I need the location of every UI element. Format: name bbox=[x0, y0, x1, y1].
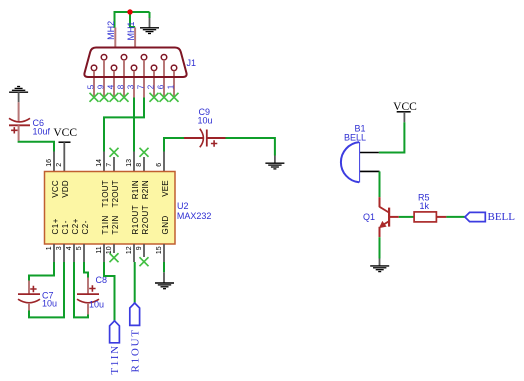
svg-text:3: 3 bbox=[127, 84, 136, 89]
svg-text:C2+: C2+ bbox=[71, 218, 80, 234]
svg-text:9: 9 bbox=[136, 246, 143, 250]
svg-text:1: 1 bbox=[167, 84, 176, 89]
ground (below Q1) bbox=[370, 259, 389, 272]
label C9 bbox=[199, 107, 211, 117]
svg-text:10uf: 10uf bbox=[33, 127, 51, 137]
svg-text:1k: 1k bbox=[420, 201, 430, 211]
svg-text:VEE: VEE bbox=[161, 180, 170, 197]
svg-text:4: 4 bbox=[107, 84, 116, 89]
svg-text:J1: J1 bbox=[187, 58, 197, 68]
power VCC (right) bbox=[393, 101, 417, 122]
svg-text:16: 16 bbox=[46, 159, 53, 167]
svg-text:R1IN: R1IN bbox=[131, 180, 140, 199]
ground (right of C9) bbox=[265, 156, 284, 169]
svg-text:5: 5 bbox=[87, 84, 96, 89]
svg-text:U2: U2 bbox=[177, 201, 189, 211]
ground (inverted, above C6) bbox=[9, 87, 28, 103]
wire C7 to U2 pin3 bbox=[29, 262, 64, 317]
svg-text:R2IN: R2IN bbox=[141, 180, 150, 199]
U2 bottom pin leads bbox=[54, 244, 164, 262]
power VCC (left) bbox=[53, 127, 77, 172]
label MH1 bbox=[126, 21, 136, 40]
svg-text:12: 12 bbox=[126, 246, 133, 254]
no-connect X at U2 pin7 T2OUT bbox=[110, 148, 119, 157]
label C7 value bbox=[42, 299, 57, 309]
label U2 bbox=[177, 201, 189, 211]
no-connect X at U2 pin8 R2IN bbox=[140, 148, 149, 157]
svg-text:4: 4 bbox=[66, 246, 73, 250]
MH1 pin bbox=[134, 28, 136, 48]
label R1OUT bbox=[129, 328, 141, 372]
svg-text:6: 6 bbox=[157, 84, 166, 89]
svg-text:6: 6 bbox=[156, 163, 163, 167]
port BELL bbox=[465, 212, 485, 221]
no-connect X at U2 pin9 R2OUT bbox=[140, 257, 149, 266]
svg-text:T2IN: T2IN bbox=[111, 215, 120, 234]
svg-text:10u: 10u bbox=[89, 300, 104, 310]
label Q1 bbox=[363, 212, 375, 222]
no-connect X at U2 pin10 T2IN bbox=[110, 253, 119, 262]
svg-text:11: 11 bbox=[96, 246, 103, 253]
svg-text:T2OUT: T2OUT bbox=[111, 180, 120, 207]
no-connect X marks under J1 pins 5 9 4 8 2 6 1 bbox=[90, 93, 179, 102]
wire J1 pin3 to U2 R1IN bbox=[133, 98, 135, 152]
resistor R5 bbox=[414, 212, 446, 222]
ground (top right of J1) bbox=[140, 18, 159, 34]
label C6 bbox=[33, 118, 45, 128]
capacitor C7 bbox=[18, 281, 40, 311]
wire B1 to Q1 collector bbox=[379, 171, 381, 197]
MH2 pin bbox=[114, 28, 116, 48]
svg-text:T1OUT: T1OUT bbox=[101, 180, 110, 207]
svg-text:T1IN: T1IN bbox=[109, 344, 121, 374]
junction dot bbox=[127, 9, 132, 14]
capacitor C9 bbox=[184, 129, 226, 148]
label T1IN bbox=[109, 344, 121, 374]
label C9 value bbox=[198, 116, 213, 126]
svg-text:R2OUT: R2OUT bbox=[141, 205, 150, 235]
ground (below U2 GND pin) bbox=[155, 272, 174, 288]
svg-text:BELL: BELL bbox=[344, 133, 366, 143]
svg-text:10u: 10u bbox=[198, 116, 213, 126]
wire Q1 emitter to ground bbox=[379, 237, 381, 258]
svg-text:BELL: BELL bbox=[488, 211, 516, 223]
wire U2 pin1 to C7 bbox=[29, 262, 54, 281]
svg-text:MH2: MH2 bbox=[106, 21, 116, 40]
svg-text:7: 7 bbox=[106, 163, 113, 167]
transistor Q1 bbox=[379, 197, 399, 237]
IC U2 MAX232 body bbox=[45, 172, 176, 245]
wire U2 pin15 GND to ground bbox=[163, 262, 165, 272]
U2 pin names bottom row bbox=[51, 205, 170, 235]
label C8 value bbox=[89, 300, 104, 310]
svg-text:GND: GND bbox=[161, 215, 170, 234]
svg-text:3: 3 bbox=[56, 246, 63, 250]
label C8 bbox=[96, 275, 108, 285]
wire C9 to ground bbox=[226, 138, 275, 156]
label BELL bbox=[488, 211, 516, 223]
wire to top ground bbox=[149, 12, 151, 18]
capacitor C6 bbox=[9, 102, 30, 141]
capacitor C8 bbox=[77, 278, 99, 315]
svg-text:VCC: VCC bbox=[51, 180, 60, 198]
svg-text:Q1: Q1 bbox=[363, 212, 375, 222]
U2 pin numbers top: 16 2 14 7 13 8 6 bbox=[46, 159, 163, 167]
svg-text:C1-: C1- bbox=[61, 220, 70, 234]
svg-text:C1+: C1+ bbox=[51, 218, 60, 234]
svg-text:VCC: VCC bbox=[53, 127, 77, 139]
svg-text:5: 5 bbox=[76, 246, 83, 250]
J1 pin leads bbox=[94, 60, 174, 98]
svg-text:C2-: C2- bbox=[81, 220, 90, 234]
J1 pin circles bbox=[91, 54, 177, 70]
svg-text:1: 1 bbox=[46, 246, 53, 250]
wire J1 pin7 to U2 T1OUT bbox=[104, 98, 144, 152]
label C6 value bbox=[33, 127, 51, 137]
wire Q1 base to R5 bbox=[399, 216, 414, 218]
wire U2 VEE to C9 bbox=[164, 138, 184, 152]
wire VCC to buzzer B1 bbox=[379, 122, 405, 152]
svg-text:7: 7 bbox=[137, 84, 146, 89]
label C7 bbox=[42, 291, 54, 301]
buzzer B1 BELL bbox=[341, 142, 380, 183]
svg-text:2: 2 bbox=[147, 84, 156, 89]
label R5 value 1k bbox=[420, 201, 430, 211]
svg-text:8: 8 bbox=[117, 84, 126, 89]
svg-text:14: 14 bbox=[96, 159, 103, 167]
svg-text:9: 9 bbox=[97, 84, 106, 89]
svg-text:MAX232: MAX232 bbox=[177, 211, 212, 221]
wire U2 pin11 to port T1IN bbox=[104, 262, 115, 321]
svg-text:15: 15 bbox=[156, 246, 163, 254]
svg-text:2: 2 bbox=[56, 163, 63, 167]
label J1 bbox=[187, 58, 197, 68]
label U2 value MAX232 bbox=[177, 211, 212, 221]
port T1IN bbox=[110, 321, 120, 343]
wire U2 pin5 to C8 top bbox=[84, 262, 88, 278]
U2 pin names top row bbox=[51, 180, 170, 207]
label B1 bbox=[355, 124, 366, 134]
svg-text:MH1: MH1 bbox=[126, 21, 136, 40]
label R5 bbox=[418, 193, 430, 203]
J1 pin numbers 5 9 4 8 3 7 2 6 1 bbox=[87, 84, 176, 89]
svg-text:10u: 10u bbox=[42, 299, 57, 309]
U2 top pin leads bbox=[54, 152, 164, 172]
svg-text:VDD: VDD bbox=[61, 180, 70, 198]
label B1 value BELL bbox=[344, 133, 366, 143]
wire C6 to U2 pin16 bbox=[19, 141, 54, 152]
svg-text:13: 13 bbox=[126, 159, 133, 167]
wire MH bus top bbox=[115, 12, 150, 28]
port R1OUT bbox=[130, 303, 140, 325]
connector J1 body bbox=[84, 48, 186, 78]
wire R5 to port BELL bbox=[446, 216, 465, 218]
svg-text:8: 8 bbox=[136, 163, 143, 167]
svg-text:R1OUT: R1OUT bbox=[129, 328, 141, 372]
wire U2 pin4 to C8 bottom bbox=[74, 262, 88, 317]
U2 pin numbers bottom: 1 3 4 5 11 10 12 9 15 bbox=[46, 246, 163, 254]
wire U2 pin12 to port R1OUT bbox=[134, 262, 136, 303]
svg-text:R1OUT: R1OUT bbox=[131, 205, 140, 235]
svg-text:T1IN: T1IN bbox=[101, 215, 110, 234]
label MH2 bbox=[106, 21, 116, 40]
svg-text:10: 10 bbox=[106, 246, 113, 254]
wire MH1 stub bbox=[130, 12, 135, 27]
